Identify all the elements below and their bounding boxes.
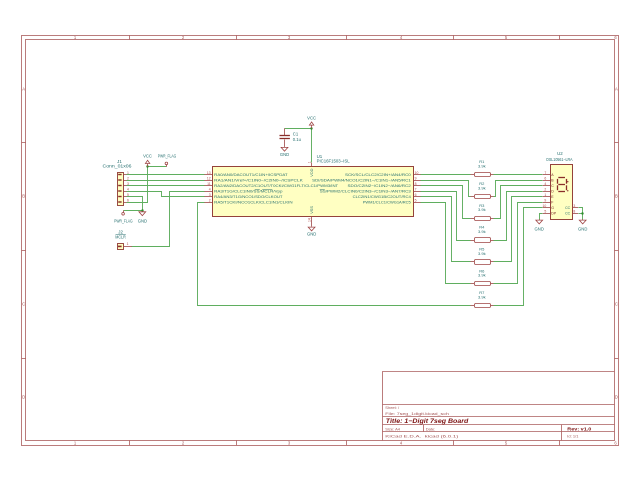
svg-text:GND: GND [280,152,289,157]
svg-text:U2: U2 [557,151,563,156]
svg-text:C: C [22,302,25,307]
svg-text:OSL10561−LRA: OSL10561−LRA [546,157,573,162]
svg-text:GND: GND [138,219,147,224]
svg-text:9: 9 [544,198,546,202]
svg-text:D: D [22,395,25,400]
svg-text:SS/PWM2/CLCIN0/C2IN3−/C1IN3−/A: SS/PWM2/CLCIN0/C2IN3−/C1IN3−/AN7/RC3 [320,188,411,193]
svg-text:Sheet: /: Sheet: / [385,405,400,410]
svg-text:SDO/C2IN2−/C1IN2−/AN6/RC2: SDO/C2IN2−/C1IN2−/AN6/RC2 [348,183,411,188]
svg-text:RA5/T1CKI/NCO1CLK/CLC1IN1/CLKI: RA5/T1CKI/NCO1CLK/CLC1IN1/CLKIN [214,199,293,204]
svg-text:7: 7 [415,187,417,191]
svg-text:GND: GND [307,231,316,236]
svg-text:2: 2 [127,176,129,180]
svg-text:3: 3 [127,182,129,186]
svg-text:1: 1 [307,161,311,163]
svg-text:G: G [551,206,554,210]
svg-text:RA0/AN0/DACOUT1/C1IN+/ICSPDAT: RA0/AN0/DACOUT1/C1IN+/ICSPDAT [214,172,288,177]
svg-text:C: C [615,302,618,307]
svg-text:2: 2 [209,198,211,202]
svg-text:Conn_01x06: Conn_01x06 [103,164,133,169]
svg-text:3.9k: 3.9k [478,273,486,278]
svg-text:9: 9 [415,176,417,180]
svg-text:RA3/T1G/CLC1IN0/SS/MCLR/Vpp: RA3/T1G/CLC1IN0/SS/MCLR/Vpp [214,188,282,193]
svg-text:4: 4 [209,187,211,191]
svg-text:10: 10 [415,171,419,175]
svg-text:3: 3 [573,204,575,208]
svg-text:VCC: VCC [307,116,316,121]
svg-text:CC: CC [565,211,571,215]
svg-text:MCLR: MCLR [115,235,126,240]
svg-text:GND: GND [535,227,544,232]
svg-text:5: 5 [127,193,129,197]
svg-text:6: 6 [127,198,129,202]
svg-text:A: A [22,87,25,92]
svg-text:File: 7seg_1digit.kicad_sch: File: 7seg_1digit.kicad_sch [385,411,449,416]
svg-text:1: 1 [544,193,546,197]
svg-text:Id: 1/1: Id: 1/1 [567,433,579,438]
svg-text:3: 3 [209,193,211,197]
svg-text:VSS: VSS [309,206,314,214]
svg-text:RA1/AN1/Vref+/C1IN0−/C2IN0−/IC: RA1/AN1/Vref+/C1IN0−/C2IN0−/ICSPCLK [214,177,303,182]
svg-text:5: 5 [544,209,546,213]
svg-text:PWR_FLAG: PWR_FLAG [114,219,133,224]
svg-text:6: 6 [415,193,417,197]
svg-text:12: 12 [207,176,211,180]
svg-text:11: 11 [207,182,211,186]
svg-text:C1: C1 [293,132,299,137]
svg-text:2: 2 [544,187,546,191]
svg-text:Size: A4: Size: A4 [385,426,400,431]
svg-text:0.1u: 0.1u [293,137,302,142]
svg-text:B: B [22,194,25,199]
svg-text:GND: GND [578,227,587,232]
svg-text:D: D [615,395,618,400]
svg-text:VDD: VDD [309,168,314,176]
svg-text:3.9k: 3.9k [478,229,486,234]
svg-text:5: 5 [415,198,417,202]
svg-text:B: B [615,194,618,199]
svg-text:PWM1/CLC1/CWG1A/RC5: PWM1/CLC1/CWG1A/RC5 [363,199,411,204]
svg-text:PIC16F1503−ISL: PIC16F1503−ISL [317,159,351,164]
svg-text:3.9k: 3.9k [478,164,486,169]
svg-text:3.9k: 3.9k [478,251,486,256]
svg-text:SDI/SDA/PWM4/NCO1/C2IN1−/C1IN1: SDI/SDA/PWM4/NCO1/C2IN1−/C1IN1−/AN5/RC1 [312,177,411,182]
svg-text:RA4/AN3/T1G/NCO1/SDO/CLKOUT: RA4/AN3/T1G/NCO1/SDO/CLKOUT [214,194,283,199]
svg-text:8: 8 [573,209,575,213]
svg-text:4: 4 [127,187,129,191]
svg-text:A: A [615,87,618,92]
svg-text:7: 7 [544,171,546,175]
svg-text:13: 13 [207,171,211,175]
svg-text:10: 10 [543,204,547,208]
svg-text:F: F [551,200,553,204]
svg-text:1: 1 [127,242,129,246]
svg-text:Date:: Date: [426,426,436,431]
svg-text:1: 1 [127,171,129,175]
svg-text:CLC2IN1/CWG1B/C2OUT/RC4: CLC2IN1/CWG1B/C2OUT/RC4 [353,194,412,199]
svg-text:3.9k: 3.9k [478,185,486,190]
svg-text:14: 14 [307,218,311,222]
svg-text:3.9k: 3.9k [478,295,486,300]
svg-text:4: 4 [544,182,546,186]
svg-text:PWR_FLAG: PWR_FLAG [158,154,177,159]
svg-text:Title: 1−Digit 7seg Board: Title: 1−Digit 7seg Board [386,418,469,425]
svg-text:Rev: v1.0: Rev: v1.0 [567,426,592,431]
svg-text:CC: CC [565,206,571,210]
svg-text:DP: DP [551,211,557,215]
svg-text:SCK/SCL/CLC2/C2IN+/AN4/RC0: SCK/SCL/CLC2/C2IN+/AN4/RC0 [345,172,412,177]
svg-text:3.9k: 3.9k [478,207,486,212]
svg-text:8: 8 [415,182,417,186]
svg-text:KiCad E.D.A. kicad (6.0.1): KiCad E.D.A. kicad (6.0.1) [385,434,459,439]
svg-text:RA2/AN2/DACOUT2/C1OUT/T0CKI/CW: RA2/AN2/DACOUT2/C1OUT/T0CKI/CWG1FLT/CLC1… [214,183,339,188]
svg-text:VCC: VCC [143,154,152,159]
svg-text:6: 6 [544,176,546,180]
